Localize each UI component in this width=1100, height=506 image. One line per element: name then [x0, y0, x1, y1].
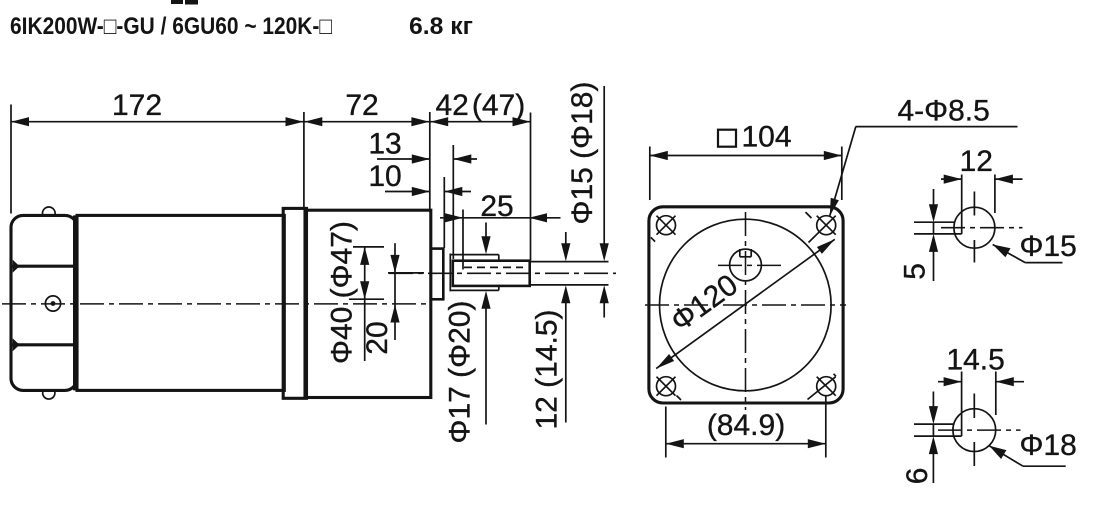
flange vertical centerline — [745, 212, 747, 410]
svg-text:6.8 кг: 6.8 кг — [409, 13, 473, 40]
svg-text:14.5: 14.5 — [946, 343, 1004, 376]
flat top projection line — [914, 221, 954, 223]
dimension 6 upper line — [932, 392, 934, 409]
dimension 25 mid line — [463, 217, 529, 219]
motor front flange plate — [283, 208, 306, 398]
extension line key flat start — [462, 210, 464, 270]
svg-text:Φ15 (Φ18): Φ15 (Φ18) — [566, 82, 599, 225]
flange square outline — [649, 207, 843, 403]
extension line left of 172 — [10, 105, 12, 214]
output shaft circle — [730, 249, 762, 281]
svg-text:Φ18: Φ18 — [1020, 429, 1077, 462]
motor cap right edge heavy line — [73, 215, 78, 390]
svg-text:Φ17 (Φ20): Φ17 (Φ20) — [444, 301, 477, 444]
extension line shaft step 13 — [452, 145, 454, 259]
dimension 20 vertical line — [394, 243, 396, 340]
dimension 6 lower line — [932, 452, 934, 483]
motor rear cap notch wedge 2 — [13, 338, 20, 351]
svg-text:Φ40 (Φ47): Φ40 (Φ47) — [326, 221, 359, 364]
dimension 25 line right part — [529, 217, 561, 219]
dimension 5 upper line — [933, 189, 935, 206]
svg-text:4-Φ8.5: 4-Φ8.5 — [898, 94, 990, 127]
dimension 10 line right part — [444, 191, 471, 193]
dimension 5 line crossing segment — [933, 222, 935, 234]
shaft tip bottom extension line — [531, 284, 609, 286]
phi18 vertical center mark upper — [973, 394, 975, 419]
svg-text:10: 10 — [368, 160, 401, 193]
motor body outline — [77, 215, 284, 390]
shaft (phi20 variant) left end line — [449, 254, 451, 292]
phi15 vertical center mark lower — [973, 240, 975, 263]
dimension 14.5 line left — [938, 381, 962, 383]
shaft axis extension for 20 — [388, 272, 424, 274]
dimension phi17(phi20) vertical line upper — [485, 223, 487, 241]
dimension phi15(phi18) vertical line lower — [603, 301, 605, 318]
svg-text:72: 72 — [345, 89, 378, 122]
bolt hole bottom-left — [657, 377, 682, 400]
(84.9) right extension — [825, 396, 827, 458]
output shaft centerline — [389, 272, 616, 274]
extension line motor/gear joint — [303, 112, 305, 208]
flat bottom projection line — [914, 435, 962, 437]
phi120 diagonal dimension line — [656, 239, 835, 368]
svg-text:5: 5 — [899, 263, 932, 280]
phi15 shaft section circle — [954, 207, 995, 248]
4-phi8.5 leader line — [830, 127, 856, 216]
shaft tip top extension line — [531, 261, 609, 263]
phi40 bottom extension line — [349, 298, 384, 300]
extension line shaft tip — [530, 113, 532, 261]
keyway slot right wall — [750, 249, 752, 257]
phi18 key flat chord — [961, 372, 963, 437]
phi18 vertical center mark lower — [973, 442, 975, 466]
svg-text:104: 104 — [742, 121, 792, 154]
svg-text:20: 20 — [361, 321, 394, 354]
dimension 13 line right part — [453, 158, 477, 160]
phi18 right tangent extension — [995, 372, 997, 416]
phi15 key flat chord — [961, 175, 963, 234]
motor rear cap bottom screw head — [43, 391, 55, 399]
svg-text:Φ15: Φ15 — [1020, 230, 1077, 263]
phi40 top extension line — [353, 246, 384, 248]
phi18 shaft section circle — [953, 409, 996, 452]
dimension 12 line left — [941, 178, 962, 180]
square104 right extension — [841, 147, 843, 201]
svg-text:25: 25 — [480, 190, 513, 223]
dimension 10 line left part — [385, 191, 430, 193]
svg-text:Φ120: Φ120 — [665, 268, 744, 338]
shaft (phi20 variant) top line — [450, 254, 499, 256]
motor rear cap outline — [11, 215, 77, 390]
svg-text:6: 6 — [901, 468, 934, 485]
svg-text:172: 172 — [112, 89, 162, 122]
4-phi8.5 underline — [856, 126, 1018, 128]
gearhead shaft boss — [431, 249, 444, 300]
bolt hole bottom-right — [808, 374, 837, 400]
dimension phi17(phi20) vertical line lower — [485, 307, 487, 425]
bolt hole top-left — [651, 216, 676, 242]
top edge artifact marks — [171, 0, 183, 4]
phi15 leader arrow — [993, 245, 1011, 258]
dimension (84.9) line — [666, 443, 826, 445]
phi15 horizontal centerline — [941, 227, 1023, 229]
dimension 72 line — [304, 121, 429, 123]
svg-text:12: 12 — [960, 145, 993, 178]
gearhead housing outline — [305, 210, 431, 397]
dimension 12(14.5) vertical line upper — [565, 232, 567, 246]
shaft (phi20 variant) bottom step — [498, 285, 500, 291]
dimension 12(14.5) vertical line lower — [565, 301, 567, 423]
dimension 42(47) line — [430, 121, 530, 123]
dimension 172 line — [11, 121, 304, 123]
motor axis centerline — [2, 303, 427, 305]
keyway slot left wall — [739, 249, 741, 257]
svg-text:13: 13 — [368, 128, 401, 161]
dimension 12 line right — [995, 178, 1023, 180]
motor rear cap divider 1 — [11, 265, 77, 268]
keyway slot bottom — [740, 256, 751, 258]
phi15 vertical center mark upper — [973, 192, 975, 216]
4-phi8.5 leader arrowhead — [830, 198, 839, 216]
svg-text:42(47): 42(47) — [436, 89, 526, 122]
(84.9) left extension — [665, 407, 667, 458]
output shaft phi15 outline — [453, 261, 530, 286]
svg-text:6IK200W-□-GU / 6GU60 ~ 120K-□: 6IK200W-□-GU / 6GU60 ~ 120K-□ — [10, 13, 332, 40]
dimension 5 lower line — [933, 250, 935, 281]
dimension 14.5 line right — [996, 381, 1024, 383]
motor cap center dot — [51, 301, 56, 306]
gearhead circular body — [660, 219, 832, 391]
phi18 leader arrow — [989, 446, 1006, 459]
phi15 right tangent extension — [994, 175, 996, 214]
square104 left extension — [649, 147, 651, 201]
dimension 25 line left part — [440, 217, 463, 219]
dimension square104 text — [718, 130, 736, 147]
flange horizontal centerline — [645, 304, 846, 306]
extension line boss face 10 — [443, 177, 445, 248]
bolt hole top-right — [806, 212, 836, 242]
phi18 horizontal centerline — [938, 429, 1021, 431]
dimension phi15(phi18) vertical line upper — [603, 86, 605, 246]
shaft (phi20 variant) top step — [498, 255, 500, 261]
dimension phi40(phi47) vertical line — [364, 247, 366, 361]
shaft (phi20 variant) bottom line — [450, 289, 499, 291]
shaft key flat hidden line — [464, 266, 523, 268]
motor cap center hub circle — [45, 296, 60, 311]
dimension square104 line — [650, 155, 842, 157]
keyway slot white gap — [741, 247, 750, 253]
svg-text:12 (14.5): 12 (14.5) — [531, 309, 564, 429]
flat top projection line — [914, 423, 953, 425]
motor rear cap divider 2 — [11, 343, 77, 346]
extension line gearhead face — [429, 112, 431, 209]
dimension 6 line crossing segment — [932, 424, 934, 436]
dimension 13 line left part — [377, 158, 430, 160]
flat bottom projection line — [914, 233, 962, 235]
shaft circle short centerline — [718, 264, 783, 266]
motor rear cap notch wedge 1 — [13, 260, 20, 273]
svg-text:(84.9): (84.9) — [707, 409, 785, 442]
motor rear cap top screw head — [43, 207, 56, 214]
